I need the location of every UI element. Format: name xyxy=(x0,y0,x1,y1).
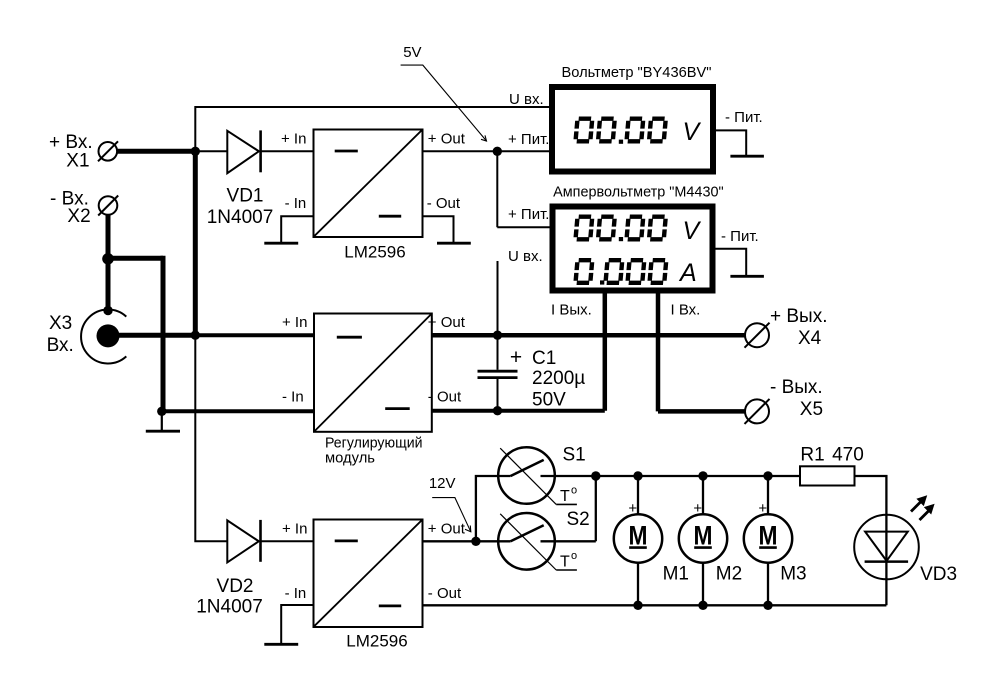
wire voltmeter -Pit to ground xyxy=(713,130,746,156)
wire motor bottom bus xyxy=(423,604,887,606)
ampervoltmeter display 00.00 V xyxy=(576,217,702,245)
wire +In regulating xyxy=(195,333,314,337)
wire VD2 to module xyxy=(261,540,314,542)
wire R1 to VD3 xyxy=(855,476,887,605)
capacitor C1 xyxy=(478,335,586,411)
node shield xyxy=(103,306,112,315)
svg-text:o: o xyxy=(571,485,577,497)
wire I out lead xyxy=(603,290,608,411)
svg-text:- Пит.: - Пит. xyxy=(725,109,763,126)
svg-text:5V: 5V xyxy=(403,44,421,61)
svg-text:LM2596: LM2596 xyxy=(344,243,405,262)
svg-text:M1: M1 xyxy=(663,564,689,585)
ground G4 xyxy=(730,275,764,278)
ground G2 xyxy=(437,242,471,245)
wire +Out U1 to voltmeter xyxy=(423,150,553,152)
wire X2 node to shield xyxy=(106,258,111,310)
svg-text:- Out: - Out xyxy=(427,195,461,212)
svg-text:M: M xyxy=(629,521,648,551)
svg-text:- In: - In xyxy=(285,195,307,212)
motor M2 xyxy=(679,471,742,610)
svg-text:VD3: VD3 xyxy=(920,564,957,585)
label 5V leader xyxy=(401,44,487,141)
svg-text:+ Пит.: + Пит. xyxy=(508,206,549,223)
voltmeter display 00.00 V xyxy=(576,118,702,146)
voltmeter U2 BY436BV box xyxy=(552,64,713,172)
svg-text:470: 470 xyxy=(832,444,864,465)
svg-text:V: V xyxy=(683,217,702,245)
wire S2 up to S1 xyxy=(595,476,597,541)
ampervoltmeter U3 M4430 box xyxy=(553,184,724,291)
wire I in to X5 xyxy=(658,409,746,414)
svg-text:U вх.: U вх. xyxy=(509,91,544,108)
svg-text:модуль: модуль xyxy=(325,450,375,467)
svg-text:+ In: + In xyxy=(282,521,307,538)
svg-text:T: T xyxy=(560,488,570,505)
wire X1 to node xyxy=(117,149,196,154)
svg-text:- In: - In xyxy=(282,389,304,406)
svg-text:M: M xyxy=(759,521,778,551)
wire -In U5 to ground xyxy=(281,605,313,644)
svg-text:1N4007: 1N4007 xyxy=(207,207,274,228)
svg-text:Вх.: Вх. xyxy=(47,335,74,356)
svg-text:M2: M2 xyxy=(716,564,742,585)
wire -Out to I lead xyxy=(432,409,605,413)
svg-text:I Вх.: I Вх. xyxy=(671,302,701,319)
svg-text:T: T xyxy=(560,554,570,571)
wire -In U1 to ground xyxy=(281,216,313,243)
svg-text:S1: S1 xyxy=(563,445,586,466)
wire +Out to X4 xyxy=(432,333,746,338)
svg-text:+: + xyxy=(510,346,522,369)
wire 12V node up to S1 xyxy=(476,476,511,541)
svg-text:Вольтметр "BY436BV": Вольтметр "BY436BV" xyxy=(562,64,712,81)
svg-text:- Пит.: - Пит. xyxy=(721,228,759,245)
ground G1 xyxy=(264,242,298,245)
resistor R1 xyxy=(800,444,864,485)
svg-text:+ Пит.: + Пит. xyxy=(508,131,549,148)
wire U vh ammeter drop xyxy=(497,261,499,335)
wire plus bus to VD2 xyxy=(195,335,228,541)
wire ammeter -Pit to ground xyxy=(713,249,747,276)
svg-text:+ In: + In xyxy=(281,131,306,148)
svg-text:VD2: VD2 xyxy=(217,576,254,597)
module U5 LM2596 bottom xyxy=(282,520,466,651)
svg-text:12V: 12V xyxy=(429,475,456,492)
ground G5 xyxy=(146,411,180,431)
wire X2 down xyxy=(106,215,111,259)
svg-text:M3: M3 xyxy=(780,564,806,585)
switch S1 xyxy=(498,445,596,506)
wire node to VD1 xyxy=(195,150,228,152)
node +Out xyxy=(493,331,502,340)
wire VD1 to module xyxy=(261,150,314,152)
LED VD3 xyxy=(854,515,957,585)
node plus input xyxy=(191,331,200,340)
wire 5V node down xyxy=(496,151,498,227)
connector X4 xyxy=(745,306,828,349)
svg-text:+ Out: + Out xyxy=(428,131,466,148)
wire -Out U1 to ground xyxy=(423,216,454,243)
switch S2 xyxy=(476,509,596,571)
svg-text:VD1: VD1 xyxy=(227,186,264,207)
svg-text:V: V xyxy=(683,118,702,146)
wire X2 node right xyxy=(108,256,163,261)
ground G6 xyxy=(264,643,298,646)
svg-text:A: A xyxy=(678,259,697,287)
wire minus drop xyxy=(161,256,166,411)
LED VD3 emission arrows xyxy=(911,495,935,520)
svg-text:2200µ: 2200µ xyxy=(532,368,585,389)
svg-text:+ Out: + Out xyxy=(428,521,466,538)
svg-text:X3: X3 xyxy=(49,313,72,334)
ampervoltmeter display 0.000 A xyxy=(576,259,697,287)
svg-text:+ In: + In xyxy=(282,314,307,331)
motor M3 xyxy=(744,471,807,610)
connector X2 xyxy=(50,189,118,228)
connector X3 shield arc xyxy=(81,310,126,364)
wire +Out U5 to 12V node xyxy=(423,540,476,542)
wire -In regulating xyxy=(162,409,314,413)
svg-text:- Out: - Out xyxy=(428,389,462,406)
ground G3 xyxy=(730,155,764,158)
svg-text:C1: C1 xyxy=(532,348,556,369)
svg-text:- Вых.: - Вых. xyxy=(770,377,823,398)
label X3 xyxy=(47,313,74,356)
svg-text:- In: - In xyxy=(285,585,307,602)
svg-text:M: M xyxy=(694,521,713,551)
connector X5 xyxy=(745,377,824,424)
wire I in lead xyxy=(656,290,661,411)
node X2 split xyxy=(102,253,114,265)
module U1 LM2596 top xyxy=(281,130,466,262)
node 12V xyxy=(471,537,480,546)
connector X3 pin xyxy=(97,324,120,347)
wire +Pit ammeter xyxy=(497,226,552,228)
wire motor top bus xyxy=(596,475,800,477)
svg-text:LM2596: LM2596 xyxy=(346,632,407,651)
svg-text:X2: X2 xyxy=(67,206,90,227)
svg-text:+ Вых.: + Вых. xyxy=(770,306,827,327)
wire X3 pin to node xyxy=(117,333,195,338)
diode VD2 xyxy=(196,520,263,618)
svg-text:R1: R1 xyxy=(800,444,824,465)
wire U input bus xyxy=(195,107,552,150)
node minus in xyxy=(157,407,166,416)
svg-text:Ампервольтметр "M4430": Ампервольтметр "M4430" xyxy=(553,184,724,201)
svg-text:- Out: - Out xyxy=(428,585,462,602)
node X1/VD1 xyxy=(191,147,200,156)
node S1 S2 xyxy=(591,471,600,480)
svg-text:X5: X5 xyxy=(800,399,823,420)
svg-text:I Вых.: I Вых. xyxy=(551,302,592,319)
module U4 regulating xyxy=(282,314,466,467)
svg-text:+ Out: + Out xyxy=(428,314,466,331)
svg-text:1N4007: 1N4007 xyxy=(196,597,263,618)
wire plus bus vertical xyxy=(193,151,198,335)
svg-text:50V: 50V xyxy=(532,390,566,411)
label 12V leader xyxy=(429,475,471,532)
svg-text:X4: X4 xyxy=(798,328,822,349)
motor M1 xyxy=(614,471,689,610)
connector X1 xyxy=(49,132,118,172)
diode VD1 xyxy=(207,130,274,228)
node 5V xyxy=(493,147,502,156)
svg-text:o: o xyxy=(571,550,577,562)
node -Out xyxy=(493,406,502,415)
svg-text:U вх.: U вх. xyxy=(508,248,543,265)
svg-text:X1: X1 xyxy=(66,151,89,172)
svg-text:S2: S2 xyxy=(567,509,590,530)
